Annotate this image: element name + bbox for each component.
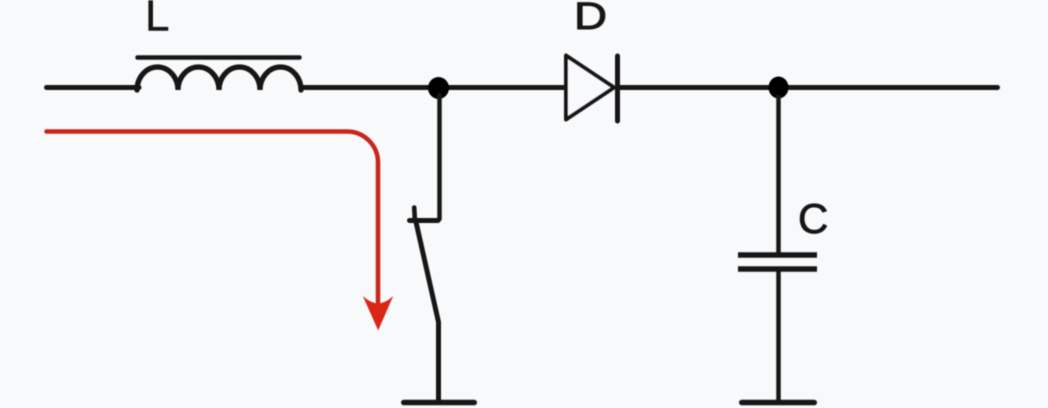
svg-text:C: C [798, 195, 828, 242]
svg-text:D: D [574, 0, 607, 38]
svg-text:L: L [145, 0, 169, 41]
